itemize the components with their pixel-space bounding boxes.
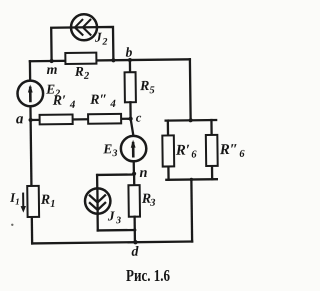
EMF source E3 (121, 136, 147, 162)
resistor R'4 (40, 114, 73, 124)
wire R6 block top bar (166, 119, 216, 122)
wire J3 branch top horizontal from n (97, 173, 134, 176)
svg-text:R″6: R″6 (219, 142, 246, 160)
node junction dot right side of J2 loop (111, 58, 115, 62)
current arrow I1 (20, 194, 26, 213)
resistor R5 (125, 72, 136, 102)
svg-text:n: n (139, 165, 147, 181)
wire c down to E3 (131, 119, 134, 136)
wire n down to R3 (133, 174, 135, 185)
resistor R'6 (162, 135, 174, 166)
node junction dot J3/R3 bottom (133, 228, 136, 231)
wire R5 down to node c (129, 102, 132, 118)
wire J3 branch left vertical down (96, 175, 99, 230)
svg-text:R′4: R′4 (52, 93, 76, 111)
current source J3 (85, 188, 111, 214)
node junction dot stub bottom bar (190, 178, 193, 181)
svg-text:c: c (136, 111, 142, 125)
wire R''6 right branch verticals (210, 120, 213, 179)
svg-text:m: m (47, 63, 58, 78)
current source J2 (71, 14, 97, 40)
wire right stub from R6 block down to bottom rail (190, 180, 193, 242)
resistor R3 (128, 185, 140, 217)
resistor R1 (27, 186, 39, 217)
wire b down to R5 (129, 60, 131, 72)
wire J3 branch bottom horizontal to R3 bottom (98, 229, 135, 232)
svg-text:J3: J3 (107, 208, 121, 226)
resistor R''6 (206, 135, 218, 166)
node b junction dot (128, 58, 132, 62)
wire J2 loop up from m across and down (51, 27, 113, 61)
node c junction dot (128, 117, 132, 121)
svg-text:a: a (16, 111, 24, 127)
wire a-c middle rail (31, 119, 131, 120)
wire R3 down to node d (133, 217, 136, 242)
EMF source E2 (17, 81, 43, 107)
svg-text:R5: R5 (139, 79, 155, 96)
svg-text:R″4: R″4 (89, 93, 116, 111)
svg-text:R3: R3 (141, 192, 156, 209)
wire R6 block bottom bar (166, 178, 216, 181)
node a junction dot (29, 118, 33, 122)
svg-text:R′6: R′6 (175, 142, 198, 160)
svg-text:d: d (131, 245, 139, 260)
wire R'6 left branch verticals (167, 121, 170, 180)
svg-text:E3: E3 (102, 141, 117, 159)
wire bottom rail (32, 242, 192, 244)
svg-text:b: b (126, 45, 133, 60)
wire left edge vertical (30, 61, 32, 243)
node m junction dot (49, 59, 53, 63)
svg-text:Рис. 1.6: Рис. 1.6 (126, 266, 170, 285)
wire right stub from top rail down to R6 block (189, 59, 192, 120)
resistor R''4 (88, 114, 121, 124)
svg-text:R1: R1 (40, 193, 56, 210)
node n junction dot (132, 172, 136, 176)
svg-text:I1: I1 (9, 190, 20, 207)
node junction dot stub top bar (189, 118, 193, 122)
scan speck (11, 224, 13, 226)
resistor R2 (65, 53, 96, 64)
node d junction dot (133, 240, 137, 244)
wire E3 down to node n (133, 161, 135, 173)
wire top rail m-b from left corner to right corner (30, 59, 190, 61)
svg-text:R2: R2 (74, 64, 90, 82)
svg-text:J2: J2 (94, 30, 108, 48)
